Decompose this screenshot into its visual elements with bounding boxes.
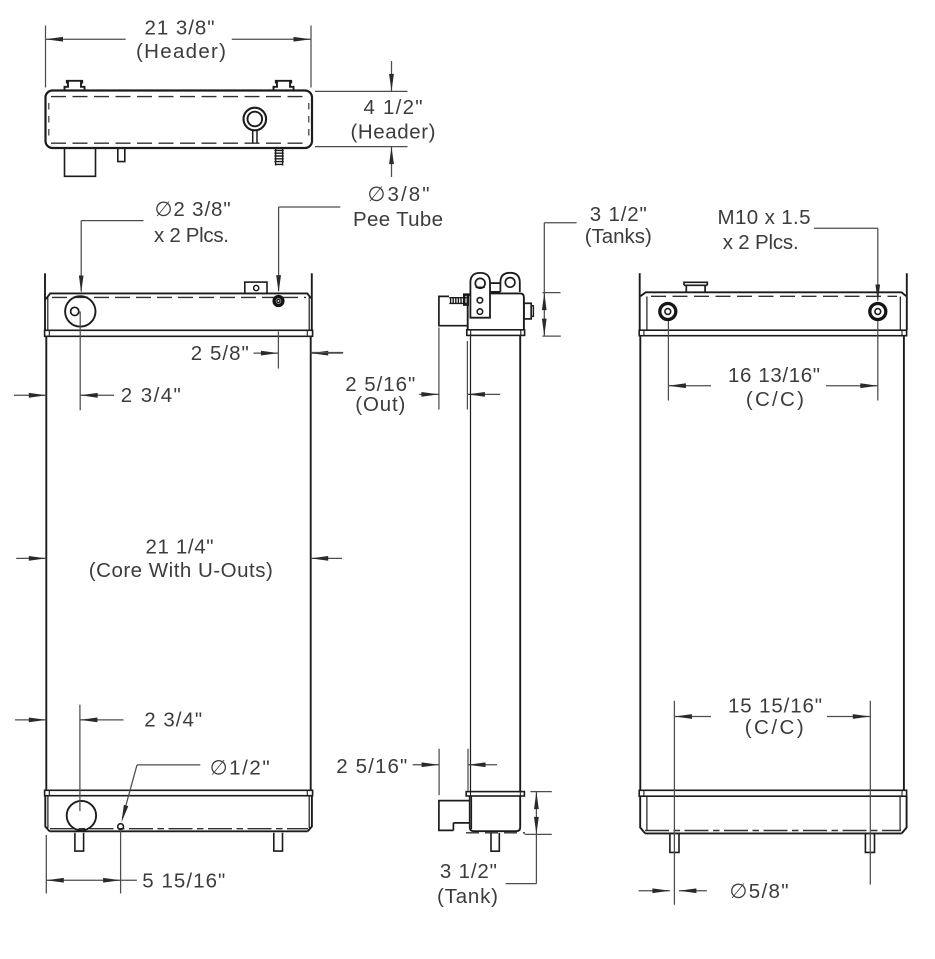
side view top tank: bracket small hole upper <box>477 298 483 304</box>
top view: bottom-left outlet box <box>65 148 96 176</box>
label M10: thread text <box>718 206 811 229</box>
dimension 2 3/4 bottom: right arrow line <box>80 719 124 721</box>
front view bottom tank: left inner edge <box>47 796 49 828</box>
svg-text:2 5/8": 2 5/8" <box>191 342 249 365</box>
dimension 3 1/2 tank: top extension line <box>530 791 551 793</box>
dimension 2 3/4 top: value text <box>121 384 181 407</box>
back view bottom tank: right side sheet with chamfer <box>902 796 907 833</box>
back view top tank: left bolt boss <box>660 304 676 320</box>
dimension 21 1/4 core: value text <box>146 535 214 558</box>
front view core: left edge <box>45 336 47 790</box>
dimension 3 1/2 tanks: arrow shaft <box>543 293 545 337</box>
dimension 21 3/8 header: dimension line <box>46 38 312 40</box>
dimension 2 5/16 out: value text <box>345 373 415 396</box>
svg-text:3 1/2": 3 1/2" <box>440 860 497 883</box>
dimension 5 15/16: left extension line <box>45 835 47 894</box>
label port 2 3/8: places text <box>154 224 229 247</box>
side view bottom tank: flange end ticks <box>471 792 521 796</box>
dimension 21 3/8 header: right arrowhead <box>294 37 312 42</box>
dimension 3 1/2 tank: arrow shaft <box>535 792 537 835</box>
dimension 16 13/16: left arrowhead <box>668 383 686 388</box>
top view: filler neck inner circle <box>248 112 263 127</box>
dimension 5 15/16: dimension line <box>46 879 137 881</box>
back view top tank: right inner edge <box>899 297 901 331</box>
side view top tank: bracket small hole lower <box>477 309 483 315</box>
svg-text:16 13/16": 16 13/16" <box>728 364 820 387</box>
dimension 5/8 leg: right arrow line <box>679 890 707 892</box>
dimension 5/8 leg: right arrowhead <box>679 888 697 893</box>
back view top tank: hidden line <box>651 295 897 297</box>
back view top tank: left inner edge <box>646 297 648 331</box>
svg-text:(Out): (Out) <box>355 393 405 416</box>
dimension 2 5/8: left arrow line <box>254 352 279 354</box>
svg-text:Pee Tube: Pee Tube <box>353 208 443 231</box>
back view bottom tank: center line <box>645 830 901 832</box>
svg-text:x 2 Plcs.: x 2 Plcs. <box>723 231 799 254</box>
top view: filler neck outer circle <box>244 108 267 131</box>
svg-text:2 3/4": 2 3/4" <box>121 384 181 407</box>
dimension 2 5/16 bottom: right extension line <box>467 749 469 791</box>
dimension 4 1/2 header: upper arrowhead <box>389 74 394 92</box>
front view top tank: pee tube hole <box>277 299 280 302</box>
svg-text:3 1/2": 3 1/2" <box>590 203 647 226</box>
dimension 21 1/4 core: left arrowhead <box>29 556 47 561</box>
dimension 2 3/4 bottom: value text <box>144 709 202 732</box>
dimension 4 1/2 header: lower arrow line <box>391 147 393 177</box>
dimension 21 1/4 core: right arrowhead <box>311 556 329 561</box>
front view top tank: right inner edge <box>308 298 310 331</box>
dimension 5/8 leg: value text <box>730 880 789 903</box>
front view bottom tank: bottom edge <box>50 830 308 832</box>
dimension 3 1/2 tanks: top arrowhead <box>542 293 547 311</box>
top view: header tank body outline <box>46 91 313 149</box>
front view top tank: flange end ticks <box>49 330 307 336</box>
side view top tank: bracket hole chord <box>476 286 485 288</box>
label port 2 3/8: diameter text <box>155 198 231 221</box>
side view bottom tank: flange <box>466 792 524 796</box>
dimension 2 5/16 out: left arrowhead <box>421 392 439 397</box>
dimension 2 5/8: right arrowhead <box>311 351 329 356</box>
side view bottom tank: outlet box <box>439 801 470 831</box>
label pee tube: diameter text <box>368 183 430 206</box>
front view core: right edge <box>310 336 312 790</box>
front view bottom tank: drain circle <box>118 824 124 830</box>
svg-text:∅1/2": ∅1/2" <box>210 757 270 780</box>
dimension 2 5/8: value text <box>191 342 249 365</box>
dimension 2 5/16 out: out text <box>355 393 405 416</box>
dimension 15 15/16: left arrowhead <box>674 714 692 719</box>
side view core: left edge <box>470 335 472 791</box>
top view: hidden line upper <box>51 96 307 98</box>
top view: hidden line lower <box>51 142 307 144</box>
front view bottom tank: left leg <box>75 833 84 851</box>
dimension 3 1/2 tanks: top extension line <box>542 292 560 294</box>
dimension 5/8 leg: left arrowhead <box>652 888 670 893</box>
dimension 2 3/4 top: right arrowhead <box>80 393 98 398</box>
dimension 2 5/16 bottom: value text <box>336 755 407 778</box>
top view: mounting cap right <box>274 81 294 91</box>
front view top tank: right side sheet <box>311 273 313 330</box>
svg-text:x 2 Plcs.: x 2 Plcs. <box>154 224 229 247</box>
dimension 21 3/8 header: left arrowhead <box>46 37 64 42</box>
side view top tank: second lobe <box>500 273 519 292</box>
dimension 15 15/16: cc text <box>745 716 804 739</box>
front view top tank: bracket with hole <box>245 282 267 293</box>
label drain 1/2: leader line <box>122 765 200 819</box>
top view: small stem <box>118 148 125 162</box>
dimension 16 13/16: value text <box>728 364 820 387</box>
dimension 15 15/16: right arrowhead <box>853 714 871 719</box>
top view: mounting cap left <box>65 81 85 91</box>
svg-text:(Tank): (Tank) <box>437 885 498 908</box>
front view bottom tank: center line <box>50 828 308 830</box>
back view top tank: cap <box>684 282 707 292</box>
dimension 21 3/8 header: left extension line <box>45 26 47 88</box>
dimension 21 3/8 header: header text <box>136 40 226 63</box>
svg-text:∅5/8": ∅5/8" <box>730 880 789 903</box>
svg-text:21 3/8": 21 3/8" <box>145 16 215 39</box>
back view bottom tank: left side sheet with chamfer <box>640 796 645 833</box>
dimension 3 1/2 tanks: bottom extension line <box>542 335 560 337</box>
front view top tank: left side sheet <box>44 273 46 330</box>
dimension 16 13/16: right arrowhead <box>860 383 878 388</box>
front view bottom tank: outlet port circle <box>67 801 96 830</box>
svg-text:(Tanks): (Tanks) <box>585 225 652 248</box>
side view top tank: connecting bar <box>490 283 500 292</box>
dimension 2 3/4 top: left arrow line <box>14 394 46 396</box>
svg-text:15 15/16": 15 15/16" <box>728 695 822 718</box>
top view: hidden line right edge <box>308 103 310 139</box>
front view bottom tank: right leg <box>274 833 283 851</box>
dimension 2 5/8: left arrowhead <box>261 351 279 356</box>
dimension 5/8 leg: left arrow line <box>639 890 670 892</box>
front view bottom tank: flange <box>45 790 313 795</box>
dimension 3 1/2 tanks: tanks text <box>585 225 652 248</box>
dimension 3 1/2 tank: tank text <box>437 885 498 908</box>
svg-text:2 3/4": 2 3/4" <box>144 709 202 732</box>
dimension 21 3/8 header: right extension line <box>310 26 312 88</box>
svg-text:4 1/2": 4 1/2" <box>364 96 423 119</box>
svg-text:5 15/16": 5 15/16" <box>142 869 225 892</box>
side view top tank: filler boss right <box>524 303 534 319</box>
svg-text:(Header): (Header) <box>351 121 436 144</box>
dimension 2 5/8: right arrow line <box>311 352 343 354</box>
side view top tank: outlet box <box>439 296 468 325</box>
front view top tank: pee tube nut <box>274 297 283 306</box>
svg-text:2 5/16": 2 5/16" <box>336 755 407 778</box>
dimension 2 3/4 top: right arrow line <box>80 394 114 396</box>
svg-text:(Core With U-Outs): (Core With U-Outs) <box>89 559 273 582</box>
front view bottom tank: right side sheet with chamfer <box>308 796 312 832</box>
back view core: left edge <box>639 336 641 791</box>
svg-text:M10 x 1.5: M10 x 1.5 <box>718 206 811 229</box>
label pee tube: leader line <box>279 207 341 291</box>
side view top tank: flange end ticks <box>471 330 521 336</box>
top view: overflow stem below neck <box>253 130 257 143</box>
dimension 2 5/16 out: left arrow line <box>419 393 439 395</box>
dimension 5 15/16: value text <box>142 869 225 892</box>
side view bottom tank: inner left edge <box>471 796 473 829</box>
dimension 21 3/8 header: value text <box>145 16 215 39</box>
label M10: places text <box>723 231 799 254</box>
front view bottom tank: right inner edge <box>308 796 310 828</box>
dimension 3 1/2 tanks: bottom arrowhead <box>542 319 547 337</box>
dimension 15 15/16: value text <box>728 695 822 718</box>
dimension 3 1/2 tanks: leader line <box>544 223 576 293</box>
dimension 2 3/4 top: left arrowhead <box>29 393 47 398</box>
back view bottom tank: right inner edge <box>899 796 901 830</box>
svg-text:21 1/4": 21 1/4" <box>146 535 214 558</box>
front view top tank: inlet port circle <box>65 296 95 326</box>
back view core: right edge <box>903 336 905 791</box>
label M10: leader line <box>814 228 878 300</box>
label port 2 3/8: leader line <box>81 221 143 292</box>
back view bottom tank: left inner edge <box>646 796 648 830</box>
dimension 15 15/16: right extension line <box>869 701 871 885</box>
dimension 15 15/16: dimension line <box>674 716 870 718</box>
dimension 5 15/16: left arrowhead <box>46 878 64 883</box>
dimension 2 5/16 bottom: left extension line <box>438 749 440 795</box>
dimension 16 13/16: left extension line <box>667 321 669 401</box>
side view top tank: thread collar <box>464 295 468 305</box>
label drain 1/2: diameter text <box>210 757 270 780</box>
dimension 21 1/4 core: note text <box>89 559 273 582</box>
dimension 16 13/16: cc text <box>746 388 804 411</box>
back view bottom tank: right leg <box>865 834 874 853</box>
dimension 5 15/16: right extension line <box>120 831 122 894</box>
dimension 2 3/4 top: extension line <box>79 312 81 411</box>
dimension 3 1/2 tank: value text <box>440 860 497 883</box>
dimension 3 1/2 tank: bottom extension line <box>525 833 552 835</box>
dimension 2 5/16 bottom: right arrowhead <box>468 762 486 767</box>
back view top tank: left bolt hole <box>665 309 671 315</box>
dimension 2 3/4 bottom: extension line <box>79 705 81 811</box>
label pee tube: name text <box>353 208 443 231</box>
front view bottom tank: left side sheet with chamfer <box>45 796 49 832</box>
svg-text:(Header): (Header) <box>136 40 226 63</box>
side view top tank: outlet threads <box>449 298 466 304</box>
dimension 3 1/2 tank: bottom arrowhead <box>534 817 539 835</box>
dimension 15 15/16: left extension line <box>673 701 675 905</box>
back view bottom tank: flange end ticks <box>644 790 902 796</box>
dimension 2 3/4 bottom: left arrowhead <box>29 718 47 723</box>
back view bottom tank: flange <box>639 790 906 796</box>
back view top tank: top edge with chamfers <box>640 292 906 296</box>
dimension 2 5/16 out: left extension line <box>438 328 440 410</box>
back view top tank: flange end ticks <box>644 330 902 336</box>
dimension 2 3/4 bottom: right arrowhead <box>80 718 98 723</box>
dimension 2 5/16 bottom: right arrow line <box>468 764 497 766</box>
side view core: right edge <box>519 335 521 791</box>
back view top tank: flange <box>639 330 906 336</box>
back view top tank: left side sheet <box>639 273 641 330</box>
dimension 3 1/2 tanks: value text <box>590 203 647 226</box>
dimension 4 1/2 header: bottom extension line <box>315 146 408 148</box>
dimension 2 5/16 out: arrow pointing left at core edge <box>311 352 344 354</box>
side view top tank: second lobe hole <box>505 278 515 288</box>
side view bottom tank: center dash line <box>466 832 525 834</box>
dimension 16 13/16: right extension line <box>877 321 879 401</box>
label pee tube: leader arrowhead <box>276 275 281 293</box>
label drain 1/2: leader arrowhead <box>122 805 129 823</box>
side view top tank: tank body outline <box>468 293 524 329</box>
back view bottom tank: bottom edge <box>645 832 902 834</box>
dimension 2 5/16 out: right arrowhead <box>467 392 485 397</box>
side view bottom tank: leg <box>491 833 499 851</box>
dimension 21 1/4 core: left arrow line <box>16 557 46 559</box>
dimension 16 13/16: dimension line <box>668 385 877 387</box>
dimension 2 5/8: extension line <box>277 332 279 369</box>
top view: pee tube threaded <box>274 148 283 166</box>
dimension 4 1/2 header: top extension line <box>315 90 408 92</box>
front view top tank: hidden line <box>52 296 306 298</box>
dimension 21 1/4 core: right arrow line <box>311 557 342 559</box>
back view top tank: right bolt boss <box>870 304 886 320</box>
dimension 4 1/2 header: header text <box>351 121 436 144</box>
front view bottom tank: flange end ticks <box>49 790 307 795</box>
svg-text:∅2 3/8": ∅2 3/8" <box>155 198 231 221</box>
back view bottom tank: left leg <box>670 834 679 853</box>
back view top tank: right side sheet <box>906 273 908 330</box>
dimension 2 5/16 bottom: left arrowhead <box>422 762 440 767</box>
side view top tank: mounting bracket plate <box>470 273 490 318</box>
dimension 2 5/16 out: right arrow line <box>467 393 500 395</box>
dimension 2 5/16 out: right extension line <box>466 341 468 410</box>
back view top tank: right bolt hole <box>875 309 881 315</box>
front view top tank: left inner edge <box>47 298 49 331</box>
label port 2 3/8: leader arrowhead <box>79 276 84 294</box>
front view top tank: bottom flange <box>45 330 313 336</box>
dimension 2 3/4 bottom: left arrow line <box>15 719 46 721</box>
side view top tank: bracket top hole <box>475 278 485 288</box>
dimension 4 1/2 header: upper arrow line <box>391 61 393 91</box>
top view: hidden line left edge <box>48 103 50 139</box>
dimension 3 1/2 tank: leader line <box>506 834 537 883</box>
side view top tank: flange <box>467 330 525 336</box>
dimension 5 15/16: right arrowhead <box>103 878 121 883</box>
dimension 4 1/2 header: value text <box>364 96 423 119</box>
label M10: leader arrowhead <box>875 285 880 303</box>
dimension 3 1/2 tank: top arrowhead <box>534 792 539 810</box>
dimension 4 1/2 header: lower arrowhead <box>389 147 394 165</box>
front view top tank: top edge with corner chamfers <box>46 293 311 299</box>
dimension 2 5/16 bottom: left arrow line <box>413 764 439 766</box>
front view top tank: inner port circle <box>71 307 79 315</box>
side view bottom tank: tank body <box>470 796 520 831</box>
